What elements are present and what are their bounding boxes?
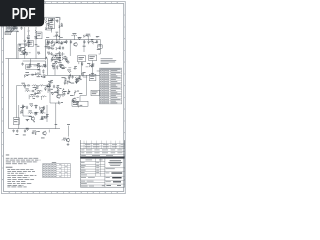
capacitor C21 — [68, 91, 70, 94]
node — [26, 120, 28, 122]
node — [91, 66, 93, 68]
node B — [61, 52, 65, 56]
capacitor C39 — [42, 75, 45, 78]
resistor R48 — [50, 27, 53, 30]
capacitor C47 — [57, 90, 60, 95]
wire — [45, 17, 60, 40]
wire — [29, 59, 31, 65]
diode CR18 — [40, 109, 42, 113]
resistor R36 — [47, 41, 50, 44]
node — [41, 76, 43, 78]
wire — [40, 119, 44, 121]
capacitor C29 — [51, 48, 54, 50]
notes text block — [6, 155, 41, 188]
wire — [32, 74, 37, 76]
value label — [49, 20, 52, 23]
node A — [18, 44, 28, 59]
connector J1 — [5, 32, 11, 35]
wire net rail — [5, 58, 47, 60]
wire — [67, 124, 70, 136]
value label — [37, 45, 40, 48]
wire — [55, 103, 57, 125]
capacitor C32 — [12, 26, 15, 29]
capacitor C36 — [56, 32, 59, 37]
wire — [99, 45, 101, 55]
wire — [8, 59, 10, 129]
resistor R76 — [40, 110, 43, 113]
wire — [45, 17, 60, 20]
wire — [40, 96, 42, 99]
wire — [16, 88, 18, 118]
capacitor C38 — [36, 63, 39, 66]
capacitor C34 — [27, 36, 30, 39]
resistor R94 — [8, 26, 10, 29]
node — [44, 116, 46, 118]
resistor R15 — [36, 74, 42, 77]
IC U3 — [78, 56, 86, 62]
resistor R18 — [67, 70, 71, 73]
node — [33, 121, 35, 123]
capacitor C25 — [41, 116, 47, 119]
resistor R21 — [32, 85, 38, 88]
capacitor C95 — [16, 129, 19, 135]
transistor Q7 — [41, 131, 46, 139]
capacitor C43 — [75, 79, 78, 82]
resistor R12 — [93, 41, 98, 44]
resistor R28 — [62, 90, 67, 93]
wire +V rail — [45, 39, 100, 41]
wire — [44, 85, 48, 93]
diode CR19 — [43, 107, 45, 111]
svg-text:PDF: PDF — [12, 6, 36, 23]
diode CR5 — [79, 75, 81, 79]
resistor R97 — [47, 52, 50, 55]
node — [53, 44, 55, 46]
capacitor C18 — [31, 90, 34, 92]
resistor R42 — [25, 53, 28, 56]
resistor R64 — [67, 82, 71, 85]
capacitor C2 — [20, 25, 23, 30]
diode CR9 — [59, 51, 61, 55]
node — [76, 82, 78, 84]
title block — [80, 140, 124, 187]
diode CR2 — [65, 40, 67, 44]
node — [69, 91, 71, 93]
resistor R61 — [55, 61, 58, 64]
wire — [46, 40, 48, 46]
resistor R29 — [20, 106, 24, 109]
wire — [97, 70, 101, 72]
resistor R43 — [24, 44, 27, 47]
resistor R69 — [49, 89, 53, 92]
IC U9 — [91, 90, 100, 96]
capacitor C3 — [27, 42, 30, 47]
node — [64, 56, 66, 58]
transistor Q1 — [20, 47, 25, 54]
connector J2 — [13, 118, 19, 125]
resistor R14 — [25, 72, 31, 75]
value label — [34, 104, 37, 107]
parts list table — [99, 68, 121, 104]
value label — [48, 47, 52, 50]
wire — [6, 25, 19, 31]
capacitor C37 — [46, 42, 49, 45]
wire — [34, 65, 38, 67]
diode CR15 — [75, 80, 77, 84]
resistor R38 — [57, 41, 60, 44]
wire — [19, 105, 47, 129]
diode CR7 — [35, 105, 37, 109]
wire — [20, 54, 25, 56]
resistor R5 — [35, 27, 37, 36]
wire — [99, 40, 101, 45]
capacitor C17 — [27, 84, 30, 86]
diode CR14 — [56, 65, 58, 69]
capacitor C33 — [27, 38, 30, 43]
resistor R52 — [83, 35, 87, 38]
resistor R23 — [25, 89, 31, 92]
capacitor C7 — [51, 40, 54, 46]
resistor R30 — [29, 104, 33, 107]
wire — [63, 89, 74, 97]
resistor R96 — [55, 53, 58, 56]
resistor R59 — [66, 61, 69, 64]
resistor R58 — [44, 65, 47, 68]
resistor R27 — [47, 85, 51, 88]
node — [69, 75, 71, 77]
resistor R32 — [28, 111, 34, 114]
resistor R75 — [34, 113, 37, 116]
wire — [17, 85, 21, 88]
resistor R10 — [71, 33, 77, 40]
diode CR8 — [59, 46, 61, 50]
wire — [54, 90, 58, 92]
resistor R62 — [59, 65, 62, 68]
capacitor C48 — [76, 101, 79, 106]
wire — [86, 66, 89, 68]
transistor Q6 — [29, 116, 35, 121]
capacitor C49 — [41, 117, 44, 120]
wire — [44, 40, 46, 60]
value label — [23, 105, 26, 108]
capacitor C13 — [31, 74, 34, 76]
wire — [48, 130, 50, 133]
capacitor C42 — [76, 79, 79, 82]
capacitor C35 — [90, 39, 93, 42]
diode CR13 — [51, 57, 53, 61]
IC U7 — [37, 32, 43, 39]
wire — [85, 75, 87, 95]
node — [60, 60, 62, 62]
capacitor C11 — [96, 40, 98, 43]
resistor R17 — [62, 57, 67, 60]
resistor R1 — [6, 25, 8, 31]
resistor R26 — [41, 96, 47, 98]
wire — [69, 40, 71, 56]
node — [67, 93, 69, 95]
resistor R67 — [34, 93, 38, 96]
resistor R39 — [47, 46, 50, 49]
capacitor C55 — [91, 64, 94, 67]
capacitor C45 — [56, 85, 59, 88]
resistor R49 — [59, 25, 63, 28]
capacitor C12 — [22, 62, 24, 65]
parts list note text — [101, 58, 117, 64]
resistor R24 — [37, 90, 43, 93]
wire — [34, 111, 38, 113]
IC U1 — [49, 18, 55, 28]
wire — [19, 111, 21, 114]
resistor R78 — [65, 59, 68, 62]
resistor R35 — [62, 139, 66, 141]
wire — [83, 76, 87, 78]
diode CR16 — [24, 84, 26, 88]
value label — [61, 76, 65, 79]
diode CR22 — [65, 77, 67, 81]
wire — [70, 74, 72, 78]
resistor R55 — [24, 75, 28, 78]
resistor R68 — [59, 102, 63, 105]
node — [48, 20, 50, 22]
wire — [84, 142, 106, 144]
resistor R11 — [85, 34, 91, 40]
wire — [23, 109, 31, 116]
wire — [55, 124, 58, 129]
resistor R93 — [14, 26, 16, 29]
diode CR23 — [64, 81, 66, 85]
resistor R63 — [81, 74, 84, 77]
wire — [37, 90, 41, 92]
resistor R33 — [40, 112, 46, 114]
capacitor C26 — [23, 129, 26, 135]
diode CR17 — [22, 104, 24, 108]
resistor R9 — [62, 42, 67, 45]
value label — [59, 54, 62, 57]
capacitor C4 — [18, 44, 21, 50]
capacitor C1 — [16, 26, 18, 29]
wire — [55, 19, 58, 21]
value label — [87, 62, 90, 65]
capacitor C99 — [62, 46, 64, 49]
capacitor C28 — [61, 41, 63, 44]
wire — [50, 88, 59, 104]
wire bus — [45, 74, 100, 76]
wire — [24, 27, 26, 39]
resistor R50 — [50, 19, 53, 22]
node — [17, 31, 19, 33]
node — [35, 133, 37, 135]
capacitor C31 — [18, 48, 21, 51]
wire — [35, 36, 37, 59]
resistor R70 — [51, 92, 54, 95]
wire — [59, 57, 61, 60]
resistor network RN1 background — [5, 25, 18, 31]
capacitor C53 — [50, 80, 53, 83]
value label — [38, 69, 41, 72]
capacitor C9 — [70, 40, 72, 43]
resistor R2 — [9, 25, 11, 31]
capacitor C16 — [67, 76, 70, 82]
resistor R44 — [37, 52, 40, 55]
IC U4 — [89, 55, 97, 61]
wire — [47, 59, 49, 76]
resistor R60 — [52, 66, 55, 69]
capacitor C14 — [58, 57, 60, 60]
transistor Q3 — [58, 62, 64, 69]
node — [58, 35, 60, 37]
node — [44, 76, 46, 78]
value label — [91, 72, 94, 75]
connector J3 — [97, 45, 102, 50]
value label — [35, 43, 38, 46]
resistor R19 — [75, 77, 80, 80]
wire — [83, 40, 85, 52]
capacitor C8 — [56, 40, 58, 43]
capacitor C40 — [55, 57, 58, 60]
wire — [46, 26, 51, 33]
resistor R98 — [56, 47, 60, 50]
IC U8 — [28, 41, 33, 47]
capacitor C19 — [36, 95, 39, 97]
value label — [62, 67, 65, 70]
IC U5 — [89, 74, 96, 81]
node — [24, 48, 26, 50]
resistor R74 — [78, 105, 82, 108]
resistor R16 — [52, 55, 58, 58]
wire — [78, 62, 80, 64]
capacitor C51 — [32, 131, 35, 134]
wire — [24, 43, 26, 58]
wire — [68, 77, 70, 80]
value label — [58, 56, 61, 59]
resistor R46 — [45, 27, 49, 30]
resistor R20 — [21, 83, 27, 86]
value label — [96, 35, 99, 38]
capacitor C23 — [43, 106, 45, 109]
node — [63, 88, 65, 90]
wire — [77, 97, 79, 99]
value label — [46, 85, 50, 88]
value label — [24, 51, 27, 54]
wire — [60, 43, 63, 45]
diode CR11 — [11, 29, 13, 33]
resistor R79 — [89, 64, 93, 67]
capacitor C98 — [51, 52, 53, 55]
resistor R71 — [57, 88, 61, 91]
diode CR21 — [81, 62, 83, 66]
wire — [96, 40, 98, 43]
wire — [68, 67, 71, 69]
capacitor C10 — [83, 40, 86, 46]
resistor R95 — [11, 26, 13, 29]
resistor R56 — [43, 64, 46, 67]
resistor R41 — [23, 52, 27, 55]
node — [58, 56, 60, 58]
resistor R25 — [30, 94, 36, 97]
ground — [12, 129, 15, 132]
wire — [80, 96, 86, 102]
net label — [46, 36, 82, 39]
wire — [29, 52, 31, 54]
value label — [60, 94, 63, 97]
resistor R73 — [75, 90, 79, 93]
value label — [79, 92, 82, 95]
resistor R7 — [45, 46, 49, 49]
diode CR6 — [44, 87, 46, 91]
value label — [60, 63, 63, 66]
node — [96, 36, 98, 38]
wire — [82, 61, 93, 76]
resistor R6 — [45, 18, 47, 26]
resistor R66 — [35, 92, 39, 95]
node — [41, 111, 43, 113]
wire — [62, 66, 67, 68]
wire gnd rail — [9, 128, 60, 130]
resistor R53 — [51, 59, 55, 62]
wire — [23, 61, 46, 66]
resistor R72 — [72, 100, 75, 103]
wire — [62, 57, 67, 62]
resistor R51 — [78, 37, 81, 40]
resistor R22 — [39, 85, 45, 87]
capacitor C6 — [61, 23, 63, 26]
capacitor C46 — [63, 91, 66, 96]
value label — [71, 82, 75, 85]
resistor R13 — [40, 66, 46, 68]
resistor R34 — [35, 130, 40, 133]
ground — [67, 143, 70, 146]
wire — [63, 40, 67, 42]
resistor R31 — [39, 107, 44, 110]
wire — [54, 61, 56, 76]
capacitor C52 — [73, 66, 76, 69]
capacitor C27 — [51, 41, 53, 44]
capacitor C22 — [26, 106, 28, 109]
value label — [82, 71, 85, 74]
node — [35, 89, 37, 91]
resistor R65 — [47, 84, 51, 87]
transistor Q2 — [74, 42, 77, 47]
transistor Q8 — [63, 138, 70, 143]
wire — [58, 52, 60, 54]
node — [52, 19, 54, 21]
capacitor C54 — [48, 81, 51, 86]
resistor R47 — [47, 23, 50, 26]
diode CR20 — [21, 109, 23, 113]
connector pin table — [43, 162, 71, 178]
capacitor C41 — [52, 63, 55, 66]
resistor R77 — [26, 128, 29, 131]
wire — [28, 95, 30, 100]
transistor Q5 — [70, 95, 76, 102]
diode CR4 — [42, 69, 44, 73]
value label — [33, 97, 35, 100]
capacitor C24 — [34, 112, 37, 114]
resistor R4 — [28, 27, 30, 35]
resistor R3 — [13, 25, 15, 31]
node — [59, 60, 61, 62]
value label — [6, 23, 18, 26]
resistor R37 — [54, 42, 58, 45]
resistor R45 — [34, 36, 37, 39]
capacitor C20 — [53, 85, 55, 88]
capacitor C5 — [56, 17, 59, 23]
resistor R8 — [53, 35, 59, 39]
diode CR1 — [24, 39, 26, 43]
IC U2 — [26, 65, 40, 70]
node — [46, 57, 48, 59]
value label — [26, 118, 29, 121]
